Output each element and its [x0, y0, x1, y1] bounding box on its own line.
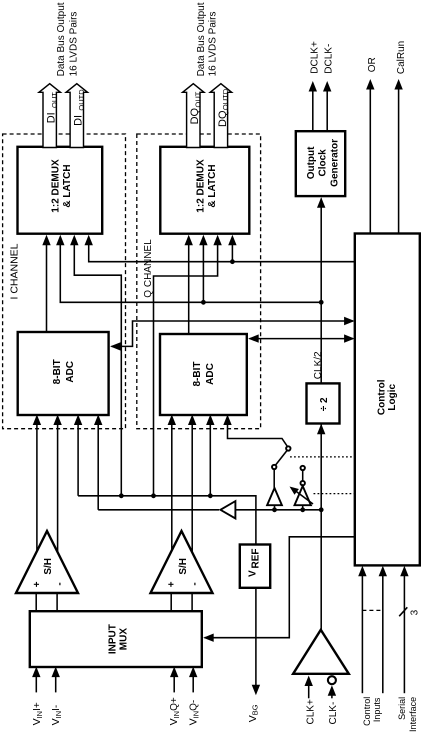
- switch left contact: [272, 465, 276, 469]
- dotted control to switch: [290, 456, 355, 458]
- bus width slash: [399, 607, 407, 616]
- svg-text:REF: REF: [250, 549, 261, 569]
- arrowheads into ADC Q: [168, 415, 176, 426]
- svg-text:16 LVDS Pairs: 16 LVDS Pairs: [208, 12, 219, 77]
- block: 1:2 DEMUX & LATCH (Q): [160, 147, 249, 234]
- wire: div2 to OCG: [320, 199, 322, 384]
- wire: S/H Q to MUX stubs: [170, 593, 172, 611]
- wire: I-DEMUX input 1 from ADC I: [46, 245, 48, 332]
- block: INPUT MUX: [30, 611, 202, 667]
- wire: CLK/2 distribution: [60, 245, 321, 302]
- svg-text:OUT: OUT: [194, 91, 203, 107]
- block: 1:2 DEMUX & LATCH (I): [18, 147, 103, 234]
- clock inverter (up pointing, DES): [295, 486, 311, 505]
- fat arrow DId out: [66, 84, 87, 148]
- I channel dashed box: [3, 134, 126, 429]
- svg-text:V: V: [248, 570, 259, 577]
- svg-text:ADC: ADC: [65, 361, 76, 383]
- wire: DCLK- out: [326, 90, 328, 131]
- fat arrow DI out: [39, 84, 60, 148]
- wire: Q-DEMUX input 2 from CLK/2: [202, 245, 204, 302]
- arrowheads into ADC I: [33, 415, 41, 426]
- wire: ADC Q input 1: [171, 425, 173, 552]
- wires: MUX inputs: [35, 676, 37, 692]
- svg-text:CLK+: CLK+: [306, 699, 317, 724]
- wire: control to ADC Q double arrow: [250, 338, 354, 340]
- wire: ADC Q input 4 from clock switch: [228, 425, 288, 446]
- block: Output Clock Generator: [296, 131, 345, 196]
- svg-text:-: -: [189, 582, 200, 585]
- svg-text:+: +: [167, 581, 178, 587]
- wire: Q-DEMUX input 1 from ADC Q: [188, 245, 190, 334]
- wire: control to ADC I (stepped, double arrow): [112, 321, 354, 346]
- wire: VBG out of VREF: [255, 587, 257, 686]
- wire: ADC Q input 3 from ref line: [209, 425, 211, 496]
- wire: CLK- input: [331, 692, 333, 699]
- svg-text:DQ: DQ: [189, 107, 201, 124]
- wire: CalRun out: [398, 88, 400, 234]
- block: divide by 2: [307, 383, 340, 423]
- wire: ctrl to I-DEMUX (y262): [89, 245, 355, 262]
- svg-text:Generator: Generator: [330, 139, 341, 187]
- svg-text:OUTD: OUTD: [221, 88, 230, 110]
- svg-text:I CHANNEL: I CHANNEL: [9, 243, 21, 299]
- svg-text:DCLK-: DCLK-: [324, 44, 335, 74]
- CLK input buffer: [293, 630, 349, 674]
- svg-text:Control: Control: [376, 379, 387, 415]
- svg-text:Output: Output: [306, 146, 317, 179]
- switch arm: [276, 451, 287, 465]
- svg-text:DI: DI: [73, 115, 85, 126]
- svg-text:OR: OR: [367, 57, 378, 72]
- svg-text:÷ 2: ÷ 2: [319, 397, 330, 411]
- adjust arrow through inverter: [295, 491, 313, 505]
- wire: Q-DEMUX input 3 from ref line: [154, 245, 218, 496]
- wire: reference line y=495.8 to VREF: [78, 496, 256, 545]
- svg-text:CLK-: CLK-: [328, 702, 339, 725]
- wire: Q-DEMUX input 4 from y262: [231, 245, 233, 262]
- svg-text:DQ: DQ: [217, 110, 229, 127]
- dashed tick between control inputs: [362, 609, 382, 611]
- svg-text:CLK/2: CLK/2: [313, 351, 324, 379]
- svg-text:Control: Control: [362, 697, 372, 726]
- junction dots: [230, 259, 235, 264]
- svg-text:Serial: Serial: [397, 697, 407, 720]
- S/H amp I: [16, 531, 78, 593]
- wire: main clock vertical: [320, 425, 322, 630]
- wire: S/H I to MUX stubs: [35, 593, 37, 611]
- dotted control to DES adjust: [314, 493, 355, 495]
- fat arrow DQd out: [210, 84, 231, 148]
- svg-text:Q CHANNEL: Q CHANNEL: [143, 239, 154, 298]
- switch right contact: [301, 466, 305, 470]
- wire: ADC I input 2: [57, 425, 59, 555]
- svg-text:8-BIT: 8-BIT: [192, 362, 203, 387]
- wire: CLK+ input: [308, 683, 310, 698]
- svg-text:Inputs: Inputs: [372, 697, 382, 722]
- sample clock buffer (left pointing): [220, 501, 235, 518]
- wire: ADC I input 4 to sample clock line: [97, 425, 99, 510]
- CLK- bubble: [328, 676, 336, 684]
- svg-text:Logic: Logic: [387, 384, 398, 411]
- wire: OR out: [369, 88, 371, 234]
- svg-text:3: 3: [409, 609, 420, 615]
- clock select switch common circle: [286, 446, 290, 450]
- S/H amp Q: [151, 531, 213, 593]
- svg-text:& LATCH: & LATCH: [207, 164, 218, 207]
- svg-text:ADC: ADC: [205, 363, 216, 385]
- wire: ADC I input 1: [36, 425, 38, 554]
- svg-text:Interface: Interface: [408, 697, 418, 732]
- fat arrow DQ out: [183, 84, 204, 148]
- svg-text:INPUT: INPUT: [108, 624, 119, 654]
- wire: ADC Q input 2: [191, 425, 193, 553]
- wire: serial interface: [403, 575, 405, 693]
- svg-text:8-BIT: 8-BIT: [52, 359, 63, 384]
- wire: control logic to input mux select: [205, 537, 355, 638]
- clock buffer 1 (up pointing): [267, 488, 282, 505]
- wire: I-DEMUX input 3 from ref line: [74, 245, 121, 496]
- block: 8-BIT ADC (I): [18, 332, 109, 415]
- svg-text:S/H: S/H: [178, 558, 189, 575]
- svg-text:-: -: [54, 582, 65, 585]
- svg-text:OUT: OUT: [50, 92, 59, 108]
- svg-text:CalRun: CalRun: [396, 41, 407, 74]
- wire: ADC I input 3 to ref line: [77, 425, 79, 496]
- svg-text:& LATCH: & LATCH: [62, 164, 73, 207]
- wire: sample clock line y=509.8: [98, 509, 219, 511]
- arrowheads into I-DEMUX: [42, 235, 50, 246]
- Q channel dashed box: [137, 134, 261, 429]
- svg-text:Data Bus Output: Data Bus Output: [56, 2, 67, 76]
- wire: DCLK+ out: [312, 90, 314, 131]
- block: VREF: [240, 545, 270, 588]
- block: Control Logic: [355, 234, 420, 566]
- inverter bubble: [301, 481, 305, 485]
- svg-text:S/H: S/H: [43, 558, 54, 575]
- svg-text:Clock: Clock: [317, 149, 328, 177]
- svg-text:Data Bus Output: Data Bus Output: [196, 2, 207, 76]
- svg-text:VINQ+: VINQ+: [168, 697, 181, 725]
- svg-text:DI: DI: [46, 112, 58, 123]
- arrowheads into Q-DEMUX: [185, 235, 193, 246]
- block: 8-BIT ADC (Q): [160, 334, 247, 415]
- svg-text:1:2 DEMUX: 1:2 DEMUX: [50, 159, 61, 213]
- svg-text:MUX: MUX: [119, 628, 130, 651]
- wire contact to buffer1: [273, 469, 275, 488]
- svg-text:16 LVDS Pairs: 16 LVDS Pairs: [68, 12, 79, 77]
- svg-text:+: +: [32, 581, 43, 587]
- svg-text:OUTD: OUTD: [77, 89, 86, 111]
- svg-text:1:2 DEMUX: 1:2 DEMUX: [195, 159, 206, 213]
- wires: control inputs: [361, 575, 363, 693]
- svg-text:DCLK+: DCLK+: [310, 41, 321, 74]
